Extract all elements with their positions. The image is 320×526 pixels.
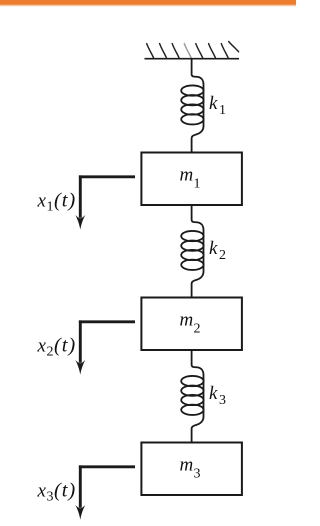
svg-text:m: m <box>180 454 194 475</box>
svg-text:(t): (t) <box>54 480 76 502</box>
svg-text:m: m <box>180 309 194 330</box>
svg-text:1: 1 <box>194 177 201 192</box>
svg-text:(t): (t) <box>54 190 76 212</box>
svg-text:x: x <box>37 190 47 211</box>
svg-text:3: 3 <box>47 490 54 505</box>
svg-text:(t): (t) <box>54 335 76 357</box>
svg-text:x: x <box>37 480 47 501</box>
svg-text:2: 2 <box>194 322 201 337</box>
svg-text:k: k <box>209 93 218 114</box>
svg-text:1: 1 <box>219 103 226 118</box>
svg-text:m: m <box>180 164 194 185</box>
svg-text:1: 1 <box>47 200 54 215</box>
svg-text:x: x <box>37 335 47 356</box>
svg-text:k: k <box>209 238 218 259</box>
svg-text:2: 2 <box>219 248 226 263</box>
svg-text:k: k <box>209 383 218 404</box>
svg-text:2: 2 <box>47 345 54 360</box>
svg-text:3: 3 <box>219 393 226 408</box>
svg-text:3: 3 <box>194 467 201 482</box>
